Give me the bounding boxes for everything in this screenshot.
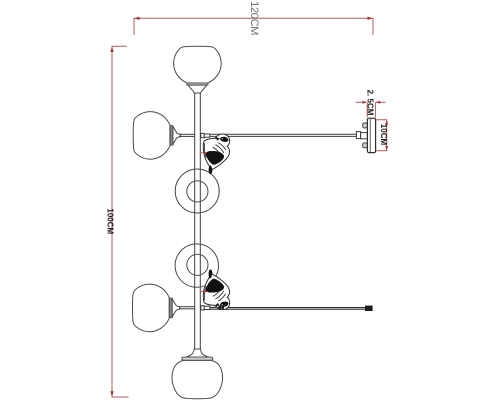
svg-text:100CM: 100CM	[106, 208, 115, 234]
svg-text:2. 5CM: 2. 5CM	[366, 90, 375, 116]
svg-text:120CM: 120CM	[248, 1, 260, 35]
svg-text:10CM: 10CM	[379, 124, 388, 146]
